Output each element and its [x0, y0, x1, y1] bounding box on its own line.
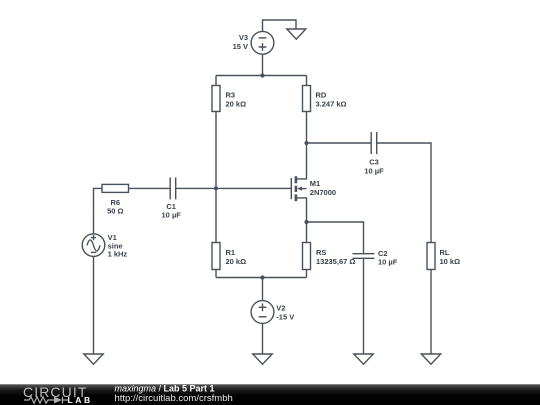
svg-text:2N7000: 2N7000	[310, 188, 336, 197]
wire V1 to ground	[93, 256, 95, 354]
node source junction	[304, 220, 308, 224]
wire RD top stub	[306, 76, 308, 86]
svg-text:-15 V: -15 V	[276, 312, 294, 321]
wire V3 bottom to top rail	[262, 54, 264, 75]
wire R3 top stub	[215, 76, 217, 86]
ground top right of V3	[287, 29, 306, 39]
voltage source V3	[251, 31, 274, 54]
svg-text:R6: R6	[111, 198, 121, 207]
footer bar	[0, 384, 540, 405]
wire RL to ground	[430, 270, 432, 355]
svg-text:13235,67 Ω: 13235,67 Ω	[316, 257, 355, 266]
logo resistor zigzag and diode	[24, 397, 68, 404]
ground below V1	[84, 354, 103, 364]
wire bottom rail to V2	[262, 278, 264, 301]
svg-text:V3: V3	[239, 33, 248, 42]
capacitor C2	[353, 254, 375, 259]
resistor RD	[303, 86, 311, 112]
voltage source V1	[82, 234, 105, 257]
svg-text:20 kΩ: 20 kΩ	[226, 100, 247, 109]
node bottom rail junction	[260, 275, 264, 279]
resistor R1	[212, 243, 220, 270]
svg-text:10 kΩ: 10 kΩ	[440, 257, 461, 266]
wire bottom rail	[216, 277, 307, 279]
wire RD bottom to drain node	[306, 112, 308, 144]
voltage source V2	[251, 301, 274, 324]
wire R6 to C1	[129, 187, 171, 189]
resistor RS	[303, 243, 311, 270]
ground below C2	[354, 354, 373, 364]
svg-text:V2: V2	[276, 304, 285, 313]
wire drain node to C3	[307, 142, 372, 144]
svg-text:M1: M1	[310, 179, 320, 188]
wire gate	[176, 187, 291, 189]
resistor R6	[102, 184, 129, 192]
resistor R3	[212, 86, 220, 112]
wire V2 to ground	[262, 323, 264, 354]
wire source node to RS	[306, 222, 308, 243]
svg-text:20 kΩ: 20 kΩ	[226, 257, 247, 266]
svg-text:3.247 kΩ: 3.247 kΩ	[316, 100, 347, 109]
wire V1 top to R6	[94, 188, 103, 233]
svg-text:http://circuitlab.com/crsfmbh: http://circuitlab.com/crsfmbh	[115, 393, 233, 404]
wire C3 to RL column	[377, 143, 431, 243]
wire C2 to ground	[363, 258, 365, 354]
svg-text:C3: C3	[369, 157, 379, 166]
svg-text:RS: RS	[316, 248, 326, 257]
node drain junction	[304, 141, 308, 145]
wire RS bottom stub	[306, 270, 308, 278]
capacitor C3	[371, 132, 377, 154]
svg-text:RL: RL	[440, 248, 450, 257]
wire top rail	[216, 75, 307, 77]
svg-text:1 kHz: 1 kHz	[108, 249, 128, 258]
node top rail junction	[260, 73, 264, 77]
wire gate node to R1	[215, 188, 217, 242]
ground below V2	[253, 354, 272, 364]
svg-text:R3: R3	[226, 91, 236, 100]
ground below RL	[421, 354, 440, 364]
wire R1 bottom stub	[215, 270, 217, 278]
resistor RL	[427, 243, 435, 270]
svg-text:R1: R1	[226, 248, 236, 257]
wire source node to C2	[307, 222, 364, 254]
svg-text:LAB: LAB	[68, 395, 93, 405]
transistor M1	[291, 143, 306, 222]
svg-text:50 Ω: 50 Ω	[107, 207, 123, 216]
wire R3 bottom to gate node	[215, 112, 217, 189]
node gate junction	[214, 186, 218, 190]
svg-text:10 µF: 10 µF	[378, 258, 398, 267]
capacitor C1	[170, 177, 176, 199]
svg-text:10 µF: 10 µF	[162, 210, 182, 219]
wire V3 top to ground	[263, 20, 297, 31]
svg-text:10 µF: 10 µF	[364, 166, 384, 175]
svg-text:15 V: 15 V	[233, 42, 248, 51]
svg-text:RD: RD	[316, 91, 327, 100]
